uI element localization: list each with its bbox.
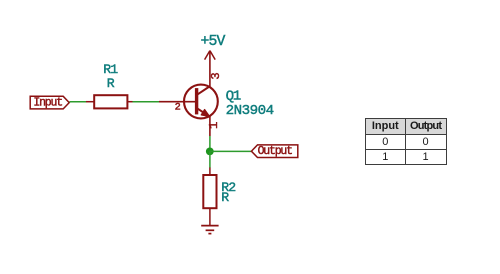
junction node xyxy=(206,148,214,156)
svg-text:R: R xyxy=(221,190,229,205)
svg-text:1: 1 xyxy=(207,122,221,129)
wire xyxy=(133,101,160,103)
global label Output xyxy=(251,145,297,158)
svg-text:2N3904: 2N3904 xyxy=(226,103,274,119)
transistor Q1 xyxy=(159,51,218,136)
power symbol +5V xyxy=(205,51,216,60)
svg-text:Q1: Q1 xyxy=(226,89,241,105)
svg-text:3: 3 xyxy=(209,72,223,79)
resistor R2 xyxy=(203,168,216,226)
svg-text:Output: Output xyxy=(258,145,293,158)
svg-text:R1: R1 xyxy=(103,62,118,77)
svg-text:R: R xyxy=(107,76,115,91)
wire xyxy=(209,136,211,152)
svg-text:2: 2 xyxy=(175,102,181,114)
wire xyxy=(209,151,211,167)
svg-text:+5V: +5V xyxy=(200,34,225,50)
wire xyxy=(210,150,252,152)
truth table xyxy=(365,118,447,165)
global label Input xyxy=(30,96,69,109)
ground xyxy=(201,226,218,234)
wire xyxy=(69,101,86,103)
resistor R1 xyxy=(86,95,133,108)
svg-text:Input: Input xyxy=(33,96,62,109)
